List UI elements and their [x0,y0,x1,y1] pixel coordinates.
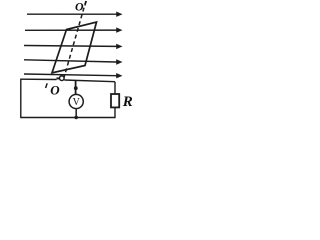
brush / slip-ring [59,76,64,81]
background [0,0,139,125]
circuit box: bottom edge [21,116,115,118]
circuit box: top edge left part [21,78,57,80]
circuit box: top edge right part [64,80,115,82]
coil (rotating rectangular loop) [52,22,97,73]
svg-text:R: R [122,94,133,110]
svg-text:V: V [73,97,81,108]
circuit box: right edge upper [114,82,116,94]
circuit box: right edge lower [114,107,116,118]
resistor R [111,94,119,107]
field line B4 [24,59,123,64]
field line B2 [25,27,123,32]
axis OO' (dashed) [64,1,86,78]
junction dot (bottom) [74,116,78,120]
field line B1 [27,11,123,16]
voltmeter bottom stub [75,108,77,117]
svg-text:O: O [75,0,84,13]
voltmeter V [69,94,83,108]
svg-text:O: O [50,83,60,98]
field line B5 [24,73,123,78]
field line B3 [24,44,123,49]
circuit box: left edge [20,79,22,118]
junction dot (top) [74,86,78,90]
voltmeter top stub [75,81,77,95]
